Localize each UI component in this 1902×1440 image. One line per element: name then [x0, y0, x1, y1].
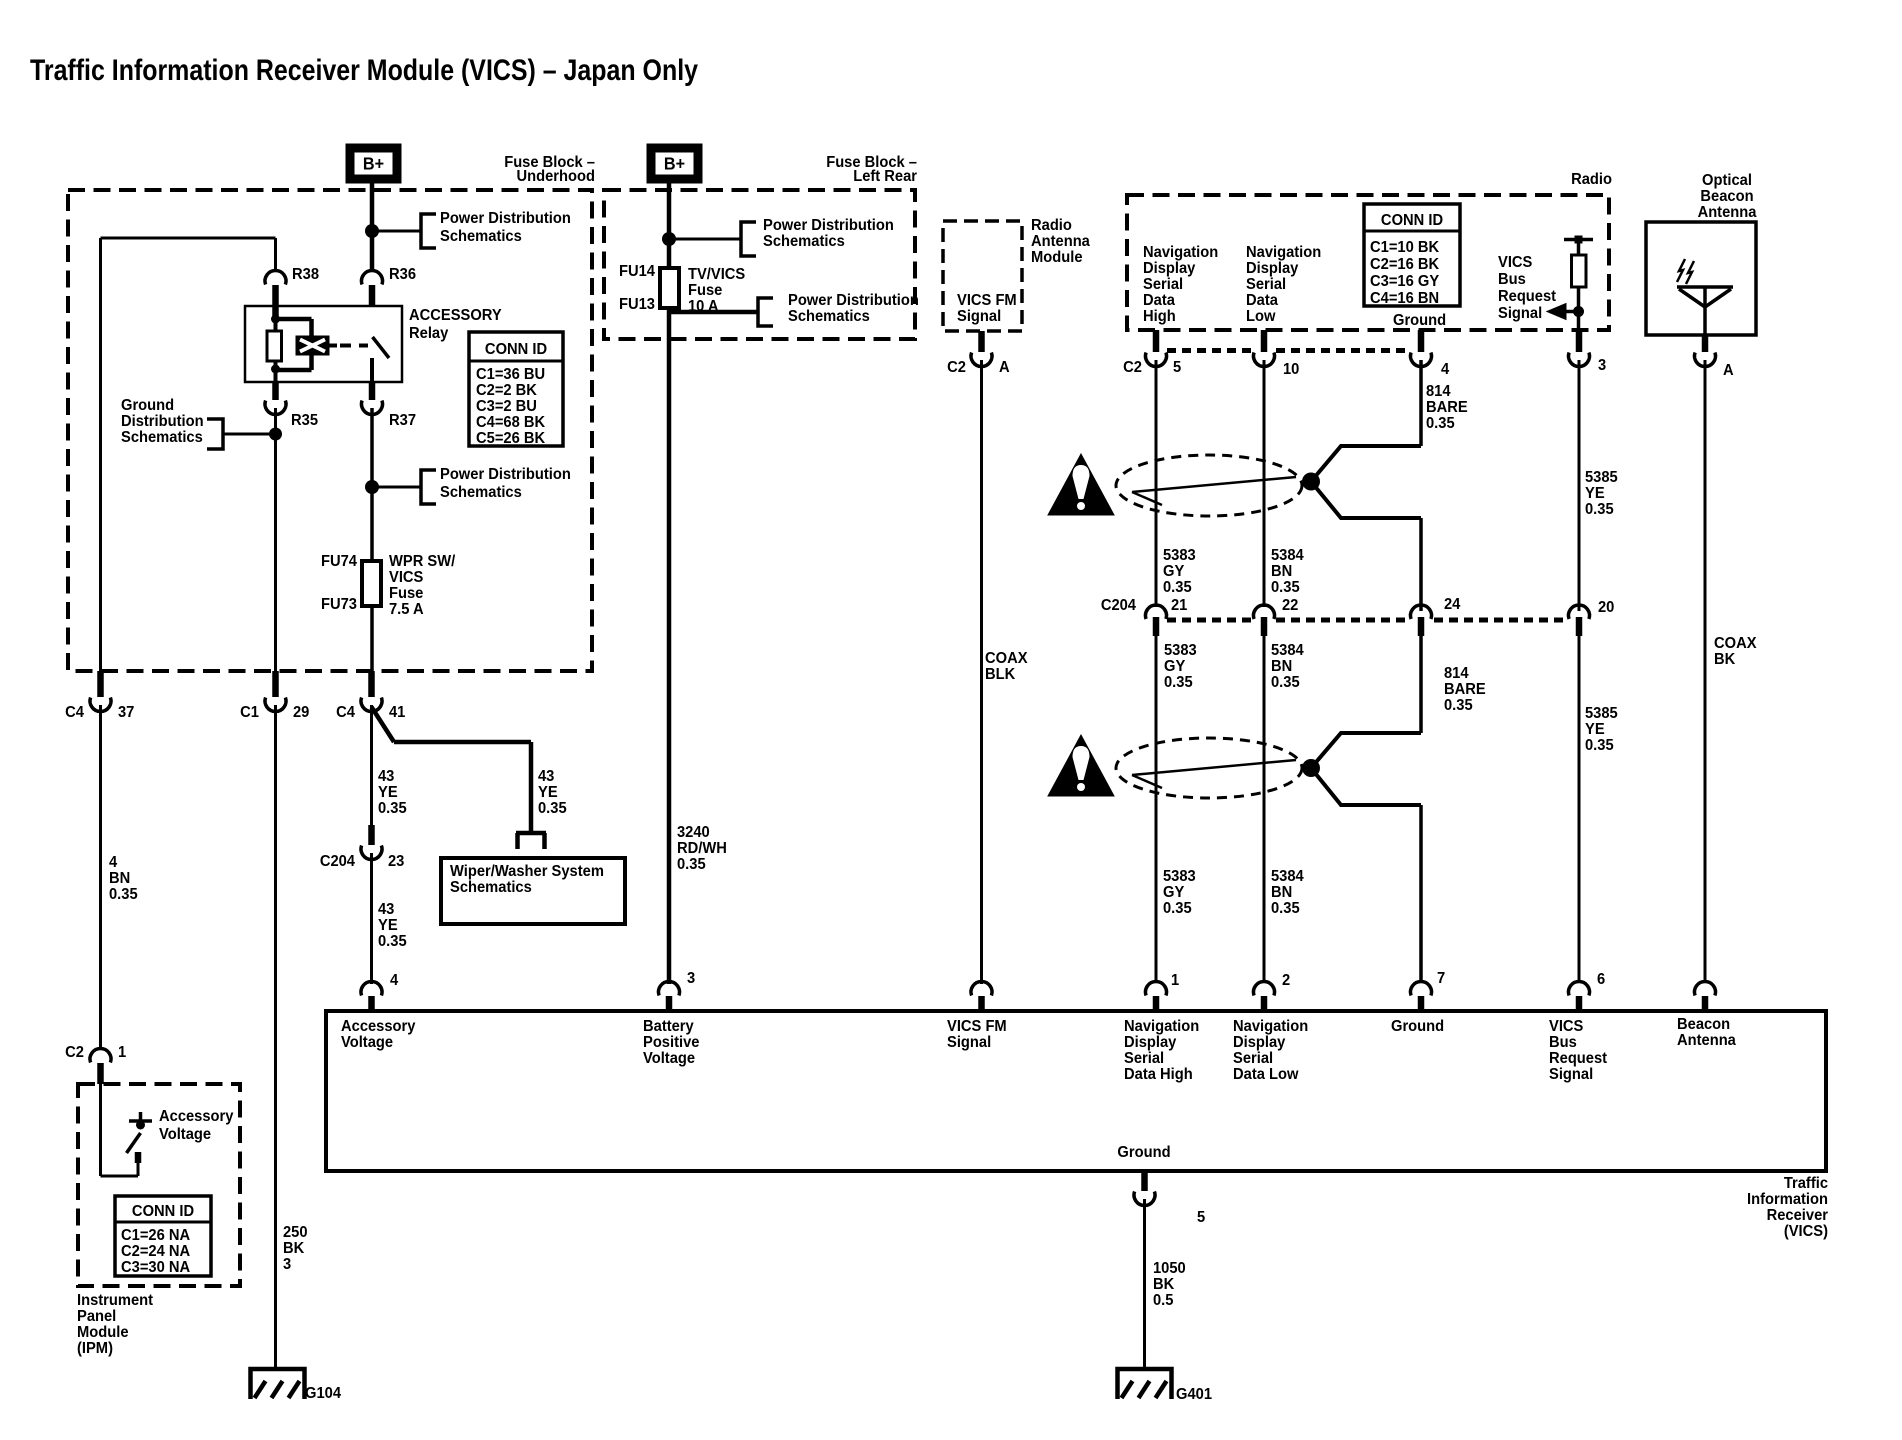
connector R38 — [265, 271, 286, 285]
svg-text:Data Low: Data Low — [1233, 1066, 1299, 1083]
svg-text:Request: Request — [1549, 1050, 1607, 1067]
wire ground 814 BARE upper — [1419, 360, 1423, 446]
connector R36 — [362, 271, 383, 285]
svg-text:Low: Low — [1246, 308, 1276, 325]
svg-text:814: 814 — [1426, 383, 1451, 400]
svg-text:41: 41 — [389, 704, 405, 721]
svg-text:Navigation: Navigation — [1143, 244, 1218, 261]
svg-text:Module: Module — [1031, 249, 1083, 266]
svg-text:43: 43 — [378, 901, 394, 918]
svg-text:BARE: BARE — [1444, 681, 1486, 698]
svg-text:TV/VICS: TV/VICS — [688, 266, 745, 283]
shield drain lower Z 1 — [1311, 482, 1421, 519]
connector R35 — [272, 382, 279, 400]
svg-text:YE: YE — [378, 784, 398, 801]
svg-text:Beacon: Beacon — [1677, 1016, 1730, 1033]
wire navigation data low upper — [1263, 360, 1266, 607]
svg-text:0.35: 0.35 — [378, 800, 407, 817]
wire R37 down — [370, 408, 374, 487]
svg-text:Navigation: Navigation — [1233, 1018, 1308, 1035]
relay switch blade — [373, 337, 390, 358]
svg-text:Navigation: Navigation — [1124, 1018, 1199, 1035]
svg-text:10: 10 — [1283, 361, 1299, 378]
node shield 1 — [1302, 473, 1320, 491]
svg-text:Data: Data — [1246, 292, 1278, 309]
svg-text:Schematics: Schematics — [763, 233, 845, 250]
connector C204 pin 21 — [1146, 605, 1167, 619]
svg-text:BN: BN — [1271, 563, 1292, 580]
svg-text:BN: BN — [1271, 884, 1292, 901]
node power distribution tap 2 — [365, 480, 379, 494]
connector C1 pin 29 — [272, 671, 279, 697]
svg-text:Instrument: Instrument — [77, 1292, 153, 1309]
svg-text:Voltage: Voltage — [341, 1034, 393, 1051]
svg-text:Positive: Positive — [643, 1034, 699, 1051]
svg-text:VICS: VICS — [389, 569, 423, 586]
svg-text:20: 20 — [1598, 599, 1614, 616]
svg-text:COAX: COAX — [985, 650, 1028, 667]
svg-text:Display: Display — [1124, 1034, 1177, 1051]
connector C204 pin 20 — [1569, 605, 1590, 619]
svg-text:YE: YE — [538, 784, 558, 801]
svg-text:G104: G104 — [305, 1385, 342, 1402]
connector C204 pin 24 — [1411, 605, 1432, 619]
svg-text:814: 814 — [1444, 665, 1469, 682]
instrument panel module dashed box — [78, 1084, 240, 1286]
twist lines 1 — [1132, 477, 1296, 492]
svg-text:Schematics: Schematics — [788, 308, 870, 325]
svg-text:Schematics: Schematics — [440, 484, 522, 501]
relay coil branch wires — [276, 317, 312, 322]
connector C204 dashed line — [1167, 618, 1252, 623]
connector C2 pin 1 (IPM) — [90, 1049, 111, 1063]
connector C1 pin 3 (radio) — [1576, 330, 1583, 352]
svg-text:0.35: 0.35 — [109, 886, 138, 903]
pin 1 connector — [1146, 982, 1167, 996]
svg-text:Voltage: Voltage — [643, 1050, 695, 1067]
pin 4 accessory voltage connector — [361, 982, 382, 996]
svg-text:COAX: COAX — [1714, 635, 1757, 652]
svg-text:7.5 A: 7.5 A — [389, 601, 424, 618]
svg-text:5384: 5384 — [1271, 547, 1304, 564]
svg-text:1: 1 — [118, 1044, 126, 1061]
svg-text:6: 6 — [1597, 971, 1605, 988]
svg-text:FU73: FU73 — [321, 596, 357, 613]
svg-text:Signal: Signal — [1549, 1066, 1593, 1083]
svg-text:5383: 5383 — [1163, 868, 1196, 885]
svg-text:7: 7 — [1437, 970, 1445, 987]
wire resistor to pin 3 — [1577, 287, 1581, 331]
svg-text:0.35: 0.35 — [378, 933, 407, 950]
svg-text:Traffic Information Receiver M: Traffic Information Receiver Module (VIC… — [30, 54, 698, 87]
ref bracket power distribution 1 — [421, 214, 436, 248]
wire R35 to C1 pin 29 — [274, 408, 277, 671]
svg-text:B+: B+ — [363, 154, 384, 174]
svg-text:Beacon: Beacon — [1700, 188, 1753, 205]
svg-text:Schematics: Schematics — [121, 429, 203, 446]
svg-text:Navigation: Navigation — [1246, 244, 1321, 261]
ref bracket ground distribution — [207, 419, 223, 449]
svg-text:22: 22 — [1282, 597, 1298, 614]
node power distribution tap 1 — [365, 224, 379, 238]
connector C2 pin 10 (radio) — [1261, 330, 1268, 352]
svg-text:C2: C2 — [947, 359, 966, 376]
svg-text:Display: Display — [1233, 1034, 1286, 1051]
svg-text:C2: C2 — [65, 1044, 84, 1061]
svg-text:Signal: Signal — [947, 1034, 991, 1051]
svg-text:Ground: Ground — [1391, 1018, 1444, 1035]
svg-text:4: 4 — [109, 854, 118, 871]
svg-text:0.5: 0.5 — [1153, 1292, 1173, 1309]
svg-text:BLK: BLK — [985, 666, 1015, 683]
svg-text:VICS FM: VICS FM — [957, 292, 1017, 309]
svg-text:250: 250 — [283, 1224, 308, 1241]
svg-text:0.35: 0.35 — [1163, 579, 1192, 596]
svg-text:C4=16 BN: C4=16 BN — [1370, 290, 1439, 307]
connector C2 pin A antenna — [978, 331, 985, 352]
svg-text:5385: 5385 — [1585, 469, 1618, 486]
connector C2 pin 4 (radio) — [1418, 330, 1425, 352]
wire 1050 BK 0.5 — [1143, 1199, 1146, 1370]
svg-text:Ground: Ground — [121, 397, 174, 414]
svg-text:YE: YE — [378, 917, 398, 934]
svg-text:Left Rear: Left Rear — [853, 168, 917, 185]
svg-text:Request: Request — [1498, 288, 1556, 305]
arrow VICS bus request signal — [1560, 310, 1579, 314]
IPM accessory voltage switch — [127, 1133, 141, 1153]
twisted pair ellipse 2 — [1116, 738, 1302, 798]
svg-text:Bus: Bus — [1498, 271, 1526, 288]
wire branch pin 41 to wiper/washer — [372, 707, 395, 742]
svg-text:2: 2 — [1282, 972, 1290, 989]
svg-text:0.35: 0.35 — [1426, 415, 1455, 432]
svg-text:CONN ID: CONN ID — [485, 341, 547, 358]
svg-text:Signal: Signal — [957, 308, 1001, 325]
svg-text:Panel: Panel — [77, 1308, 116, 1325]
svg-text:Ground: Ground — [1117, 1144, 1170, 1161]
wire data high mid — [1155, 636, 1158, 983]
svg-text:Serial: Serial — [1246, 276, 1286, 293]
svg-text:Accessory: Accessory — [159, 1108, 234, 1125]
svg-text:YE: YE — [1585, 721, 1605, 738]
accessory relay box — [245, 306, 402, 382]
beacon light rays — [1677, 259, 1685, 282]
svg-text:0.35: 0.35 — [1271, 579, 1300, 596]
shield drain upper Z 2 — [1311, 733, 1421, 768]
svg-text:Signal: Signal — [1498, 305, 1542, 322]
svg-text:R37: R37 — [389, 412, 416, 429]
svg-text:Information: Information — [1747, 1191, 1828, 1208]
svg-text:Antenna: Antenna — [1031, 233, 1090, 250]
svg-text:C204: C204 — [320, 853, 356, 870]
connector C4 pin 37 — [97, 671, 104, 697]
svg-text:FU14: FU14 — [619, 263, 656, 280]
ground G401 — [1118, 1369, 1172, 1399]
wire to accessory voltage pin 4 — [370, 853, 373, 984]
svg-text:Data: Data — [1143, 292, 1175, 309]
pin 2 connector — [1253, 982, 1274, 996]
svg-text:3: 3 — [283, 1256, 291, 1273]
svg-text:Display: Display — [1143, 260, 1196, 277]
CONN ID table IPM — [115, 1196, 211, 1276]
svg-text:C3=16 GY: C3=16 GY — [1370, 273, 1439, 290]
twisted pair ellipse 1 — [1116, 455, 1302, 516]
svg-text:Optical: Optical — [1702, 172, 1752, 189]
svg-text:VICS: VICS — [1549, 1018, 1583, 1035]
svg-text:R36: R36 — [389, 266, 416, 283]
wire B+ feed to relay R36 — [370, 183, 375, 272]
svg-text:RD/WH: RD/WH — [677, 840, 727, 857]
fuse block left rear dashed box — [604, 190, 915, 339]
wire coax VICS FM — [980, 360, 983, 984]
svg-text:G401: G401 — [1176, 1386, 1212, 1403]
svg-text:3: 3 — [1598, 357, 1606, 374]
IPM internal wire — [99, 1084, 102, 1176]
fuse WPR SW/VICS — [362, 561, 381, 606]
svg-text:YE: YE — [1585, 485, 1605, 502]
svg-text:Antenna: Antenna — [1677, 1032, 1736, 1049]
connector C4 pin 41 — [368, 671, 375, 697]
svg-text:5383: 5383 — [1164, 642, 1197, 659]
svg-text:5: 5 — [1197, 1209, 1205, 1226]
svg-text:A: A — [1723, 362, 1734, 379]
pin 3 battery positive connector — [659, 982, 680, 996]
svg-text:Power Distribution: Power Distribution — [440, 466, 571, 483]
svg-text:FU74: FU74 — [321, 553, 358, 570]
fuse block underhood dashed box — [68, 190, 592, 671]
svg-text:C5=26 BK: C5=26 BK — [476, 430, 545, 447]
svg-text:C2=2 BK: C2=2 BK — [476, 382, 537, 399]
svg-text:BK: BK — [1153, 1276, 1174, 1293]
pin 7 connector — [1411, 982, 1432, 996]
svg-text:0.35: 0.35 — [1271, 900, 1300, 917]
traffic information receiver module box — [326, 1011, 1826, 1171]
svg-text:Antenna: Antenna — [1698, 204, 1757, 221]
node ground distribution — [269, 428, 282, 441]
svg-text:C204: C204 — [1101, 597, 1137, 614]
svg-text:5: 5 — [1173, 359, 1181, 376]
connector C204 pin 23 — [368, 825, 375, 845]
wire ground distribution tap — [223, 433, 276, 436]
pin A connector (VICS module) — [1695, 982, 1716, 996]
wiper/washer schematics box — [441, 858, 625, 924]
svg-text:C2: C2 — [1123, 359, 1142, 376]
radio antenna tap symbol — [1564, 238, 1593, 242]
svg-text:5384: 5384 — [1271, 642, 1304, 659]
continuation bars — [516, 831, 546, 836]
wire to fuse FU74 — [370, 487, 374, 561]
svg-text:Radio: Radio — [1571, 171, 1612, 188]
connector C2 pin 5 (radio) — [1153, 330, 1160, 352]
connector R37 — [369, 382, 376, 400]
svg-text:Radio: Radio — [1031, 217, 1072, 234]
node VICS bus request — [1573, 306, 1584, 317]
svg-text:Underhood: Underhood — [517, 168, 595, 185]
connector pin A beacon — [1702, 335, 1709, 352]
warning triangle 1 — [1048, 454, 1114, 515]
svg-text:3: 3 — [687, 970, 695, 987]
wire to power distribution ref 1 — [372, 230, 421, 233]
ref bracket power distribution 2 — [421, 470, 436, 504]
node shield 2 — [1302, 759, 1320, 777]
svg-text:0.35: 0.35 — [1163, 900, 1192, 917]
svg-text:C3=30 NA: C3=30 NA — [121, 1259, 190, 1276]
svg-text:GY: GY — [1164, 658, 1185, 675]
svg-text:C2=16 BK: C2=16 BK — [1370, 256, 1439, 273]
svg-text:BARE: BARE — [1426, 399, 1468, 416]
svg-text:FU13: FU13 — [619, 296, 655, 313]
svg-text:C1=36 BU: C1=36 BU — [476, 366, 545, 383]
svg-text:Power Distribution: Power Distribution — [440, 210, 571, 227]
warning triangle 2 — [1048, 735, 1114, 796]
svg-text:1: 1 — [1171, 972, 1179, 989]
radio antenna module dashed box — [943, 221, 1022, 331]
svg-text:29: 29 — [293, 704, 309, 721]
pin VICS FM signal connector — [971, 982, 992, 996]
svg-text:24: 24 — [1444, 596, 1461, 613]
svg-text:GY: GY — [1163, 563, 1184, 580]
svg-text:(VICS): (VICS) — [1784, 1223, 1828, 1240]
B+ terminal (underhood) — [346, 144, 401, 183]
wire fuse output elbow — [669, 310, 758, 315]
radio dashed box — [1127, 195, 1609, 330]
svg-text:4: 4 — [1441, 361, 1450, 378]
svg-text:Fuse: Fuse — [688, 282, 722, 299]
svg-text:GY: GY — [1163, 884, 1184, 901]
wire top-left branch — [101, 237, 276, 240]
wire ground between zones — [1419, 636, 1423, 733]
svg-text:0.35: 0.35 — [1444, 697, 1473, 714]
svg-text:C4=68 BK: C4=68 BK — [476, 414, 545, 431]
connector pin 5 ground — [1141, 1171, 1148, 1191]
svg-text:Distribution: Distribution — [121, 413, 204, 430]
svg-text:VICS: VICS — [1498, 254, 1532, 271]
svg-text:ACCESSORY: ACCESSORY — [409, 307, 502, 324]
svg-text:Receiver: Receiver — [1767, 1207, 1828, 1224]
svg-text:R35: R35 — [291, 412, 318, 429]
svg-text:5385: 5385 — [1585, 705, 1618, 722]
twist lines 2 — [1132, 760, 1296, 775]
svg-text:Bus: Bus — [1549, 1034, 1577, 1051]
svg-text:4: 4 — [390, 972, 399, 989]
svg-text:Serial: Serial — [1124, 1050, 1164, 1067]
svg-text:0.35: 0.35 — [1585, 737, 1614, 754]
wire pin41 to C204-23 — [370, 705, 373, 825]
wire data low mid — [1263, 636, 1266, 983]
svg-text:43: 43 — [378, 768, 394, 785]
svg-text:Data High: Data High — [1124, 1066, 1193, 1083]
svg-text:C4: C4 — [336, 704, 355, 721]
fuse TV/VICS — [660, 268, 679, 308]
resistor (radio pull-up) — [1572, 255, 1587, 287]
wire navigation data high upper — [1155, 360, 1158, 607]
wire to R38 — [274, 238, 277, 272]
svg-text:C1: C1 — [240, 704, 259, 721]
svg-text:A: A — [999, 359, 1010, 376]
svg-text:WPR SW/: WPR SW/ — [389, 553, 456, 570]
svg-text:Voltage: Voltage — [159, 1126, 211, 1143]
svg-text:0.35: 0.35 — [1271, 674, 1300, 691]
svg-text:VICS FM: VICS FM — [947, 1018, 1007, 1035]
svg-text:BN: BN — [109, 870, 130, 887]
wire 4 BN 0.35 — [99, 705, 102, 1049]
svg-text:C1=26 NA: C1=26 NA — [121, 1227, 190, 1244]
svg-text:3240: 3240 — [677, 824, 710, 841]
svg-text:0.35: 0.35 — [1585, 501, 1614, 518]
relay coil resistor — [274, 315, 278, 331]
pin 6 connector — [1569, 982, 1590, 996]
node power distribution tap 3 — [662, 232, 676, 246]
relay actuation dashed link — [340, 344, 368, 348]
svg-text:Ground: Ground — [1393, 312, 1446, 329]
svg-text:Relay: Relay — [409, 325, 449, 342]
svg-text:C3=2 BU: C3=2 BU — [476, 398, 537, 415]
shield drain lower Z 2 — [1311, 768, 1421, 805]
wire left drop — [99, 238, 102, 671]
svg-text:21: 21 — [1171, 597, 1187, 614]
svg-text:0.35: 0.35 — [538, 800, 567, 817]
svg-text:Power Distribution: Power Distribution — [788, 292, 919, 309]
svg-text:1050: 1050 — [1153, 1260, 1186, 1277]
svg-text:Serial: Serial — [1143, 276, 1183, 293]
wire VICS bus 5385 upper — [1578, 360, 1581, 611]
svg-text:Traffic: Traffic — [1784, 1175, 1828, 1192]
svg-text:0.35: 0.35 — [677, 856, 706, 873]
CONN ID table underhood — [469, 332, 563, 446]
svg-text:37: 37 — [118, 704, 134, 721]
svg-text:Module: Module — [77, 1324, 129, 1341]
svg-text:CONN ID: CONN ID — [1381, 212, 1443, 229]
svg-text:43: 43 — [538, 768, 554, 785]
svg-text:C4: C4 — [65, 704, 84, 721]
svg-text:(IPM): (IPM) — [77, 1340, 113, 1357]
svg-text:5384: 5384 — [1271, 868, 1304, 885]
svg-text:High: High — [1143, 308, 1176, 325]
svg-text:Power Distribution: Power Distribution — [763, 217, 894, 234]
CONN ID table radio — [1364, 204, 1460, 306]
wire 250 BK 3 — [274, 705, 277, 1370]
wire VICS bus 5385 lower — [1578, 636, 1581, 983]
svg-text:CONN ID: CONN ID — [132, 1203, 194, 1220]
svg-text:R38: R38 — [292, 266, 319, 283]
svg-text:0.35: 0.35 — [1164, 674, 1193, 691]
svg-text:C2=24 NA: C2=24 NA — [121, 1243, 190, 1260]
svg-text:BK: BK — [283, 1240, 304, 1257]
svg-text:B+: B+ — [664, 154, 685, 174]
wire fuse to pin 41 — [370, 606, 374, 671]
connector C204 pin 22 — [1253, 605, 1274, 619]
svg-text:Serial: Serial — [1233, 1050, 1273, 1067]
ref bracket power distribution 3 — [741, 222, 756, 256]
svg-text:C1=10 BK: C1=10 BK — [1370, 239, 1439, 256]
svg-text:Schematics: Schematics — [450, 879, 532, 896]
svg-text:Battery: Battery — [643, 1018, 694, 1035]
svg-text:BK: BK — [1714, 651, 1735, 668]
svg-text:Wiper/Washer System: Wiper/Washer System — [450, 863, 604, 880]
optical beacon antenna box — [1646, 222, 1756, 335]
relay coil winding symbol — [296, 336, 329, 355]
svg-text:5383: 5383 — [1163, 547, 1196, 564]
shield drain upper Z 1 — [1311, 446, 1421, 482]
wire B+ to fuse FU14 — [667, 183, 672, 268]
svg-text:BN: BN — [1271, 658, 1292, 675]
svg-text:23: 23 — [388, 853, 404, 870]
beacon antenna symbol — [1677, 285, 1733, 289]
ref bracket power distribution 4 — [758, 298, 773, 326]
B+ terminal (left rear) — [647, 144, 702, 183]
svg-text:Fuse: Fuse — [389, 585, 423, 602]
svg-text:Accessory: Accessory — [341, 1018, 416, 1035]
